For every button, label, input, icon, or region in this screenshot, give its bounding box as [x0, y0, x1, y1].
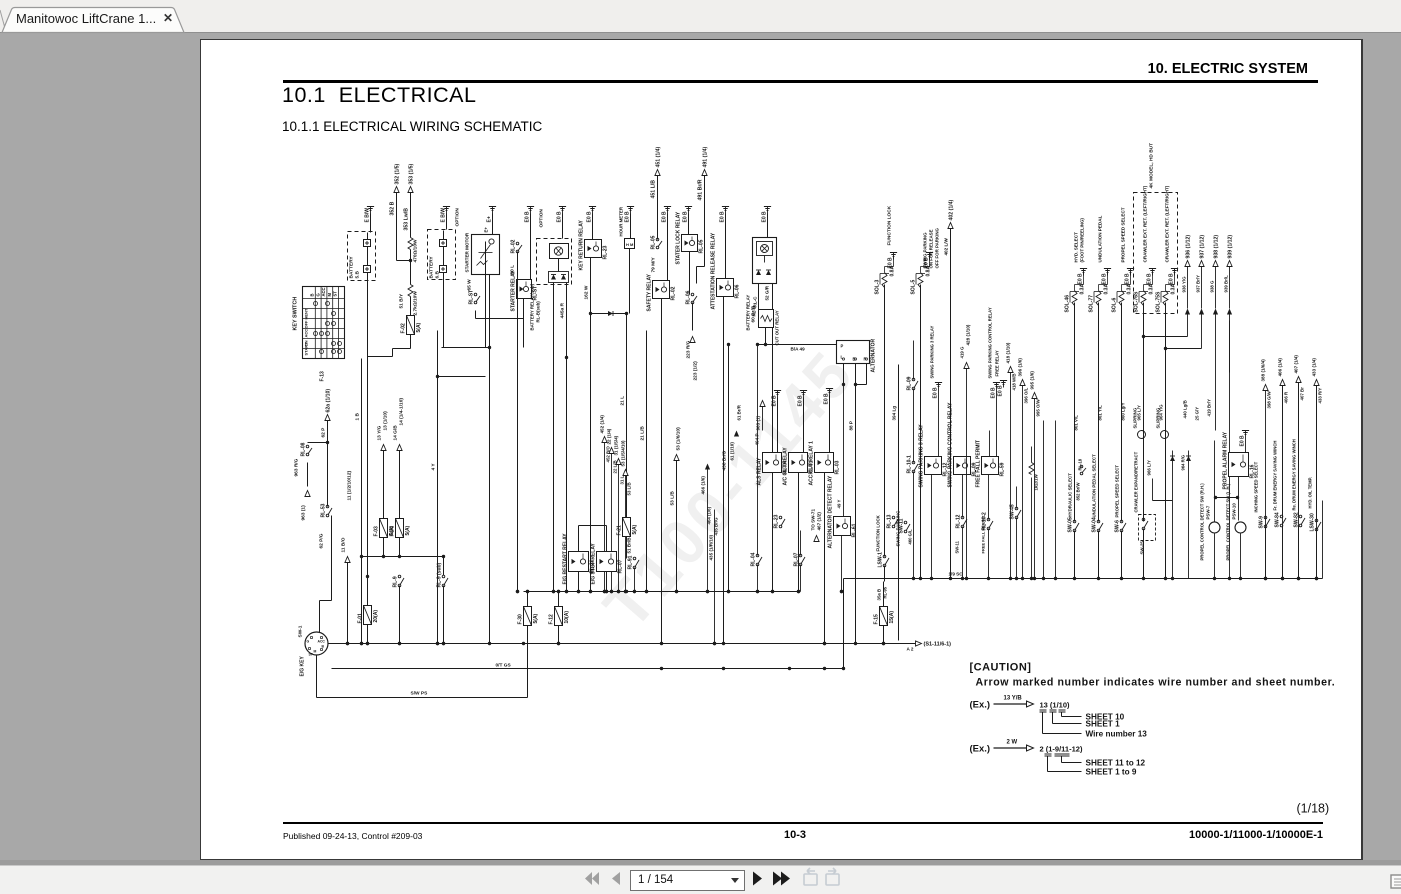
wire — [1282, 386, 1284, 579]
relay RL-01 (A/C cut relay) — [789, 453, 808, 473]
switch SW-9 (inching speed select) — [1264, 516, 1267, 519]
wire — [446, 214, 448, 230]
wire — [367, 577, 369, 606]
switch SW-6 — [1120, 520, 1123, 523]
diode D3 — [1186, 456, 1191, 461]
ground E0 B — [1171, 268, 1178, 270]
bus wire 591 — [524, 591, 801, 593]
junction — [882, 642, 885, 645]
junction — [436, 642, 439, 645]
wire — [1165, 303, 1167, 579]
ground E0 B — [774, 390, 781, 392]
switch SW-05 — [1073, 520, 1076, 523]
switch RL-18 — [1080, 465, 1083, 468]
arrow wire 936 (1/12) — [1185, 261, 1190, 267]
footer — [283, 822, 1323, 824]
arrow wire 418 (1/10) — [1008, 367, 1013, 373]
wire — [558, 592, 560, 607]
disabled forward view button — [826, 868, 839, 885]
junction — [823, 667, 826, 670]
tab Manitowoc LiftCrane — [2, 8, 184, 33]
wire — [1121, 303, 1123, 522]
slip ring SR2 — [1161, 431, 1169, 439]
wire — [884, 566, 886, 582]
switch RL-10-1 — [912, 461, 915, 464]
fuse F-15 — [880, 607, 888, 626]
wire — [1215, 321, 1217, 431]
relay RL-04 (ALS relay) — [763, 453, 782, 473]
wire — [590, 258, 592, 314]
arrow wire 452 (1/4) — [602, 437, 607, 443]
legend line SHEET 1 to 9 — [1047, 757, 1049, 772]
fuse F-02 — [407, 316, 415, 335]
wire — [920, 285, 922, 579]
relay RL-02 (safety relay) — [653, 281, 670, 299]
resistor 1k/1W — [1031, 447, 1033, 463]
wire — [843, 364, 845, 385]
wire — [492, 214, 494, 235]
wire — [688, 214, 690, 235]
switch RL-13 — [892, 516, 895, 519]
wire — [319, 601, 321, 633]
junction — [522, 642, 525, 645]
wire — [1215, 361, 1217, 431]
solenoid SOL-46 — [1072, 291, 1077, 306]
fuse F-01 — [364, 606, 372, 625]
junction — [605, 590, 608, 593]
dashed box 4K MODEL HD BUT — [1134, 193, 1178, 314]
wire — [629, 249, 631, 314]
wire — [328, 515, 332, 517]
wire — [1130, 273, 1132, 285]
disabled back view button — [804, 868, 817, 885]
solenoid SOL-77 — [1096, 291, 1101, 306]
wire — [884, 285, 886, 557]
wire — [913, 472, 915, 579]
junction — [727, 590, 730, 593]
arrow — [1185, 309, 1190, 315]
nav first page button — [585, 872, 599, 885]
slip ring SR1 — [1138, 431, 1146, 439]
ground E0 B — [800, 390, 807, 392]
wire — [725, 214, 727, 279]
junction — [589, 590, 592, 593]
wire — [1322, 501, 1324, 579]
wire — [1215, 267, 1217, 309]
legend line SHEET 1 — [1052, 713, 1054, 724]
propel control detect switch PSW-7 — [1209, 522, 1220, 533]
diode pair RL-B — [757, 262, 773, 264]
wire — [367, 233, 369, 240]
junction — [557, 590, 560, 593]
junction — [797, 590, 800, 593]
junction — [346, 642, 349, 645]
wire — [1034, 399, 1036, 579]
relay RL-06 (attestation release relay) — [717, 279, 734, 297]
wire — [931, 475, 933, 579]
document page — [200, 39, 1363, 861]
switch RL-91 — [633, 557, 636, 560]
wire — [527, 626, 529, 698]
junction — [660, 642, 663, 645]
arrow wire 491 (1/4) — [702, 170, 707, 176]
diode D1 — [591, 313, 627, 315]
arrow wire 407 (1/4) — [1296, 377, 1301, 383]
hour meter M2 — [625, 239, 635, 249]
wire — [410, 193, 412, 238]
wire — [714, 510, 716, 644]
wire — [767, 214, 769, 238]
fuse F-12 — [555, 607, 563, 626]
arrow wire 995 (1/6) — [1032, 393, 1037, 399]
junction — [840, 590, 843, 593]
wire 1 B — [361, 359, 363, 644]
ground E0 B — [935, 382, 942, 384]
junction — [722, 642, 725, 645]
wire — [723, 297, 725, 644]
wire — [1121, 531, 1123, 579]
wire — [592, 214, 594, 240]
ground E+ — [489, 206, 496, 208]
wire — [485, 242, 487, 275]
wire — [443, 231, 445, 240]
page header text — [1100, 61, 1308, 77]
status list icon bottom right — [1391, 875, 1401, 888]
heading rule — [283, 80, 1318, 83]
arrow wire 963 (1) — [307, 455, 309, 487]
wire 404 P — [772, 284, 774, 453]
wire — [966, 369, 968, 579]
propel control detect switch PSW-10 — [1235, 522, 1246, 533]
arrow wire 14 (1/4-1) — [397, 445, 402, 451]
junction — [854, 642, 857, 645]
wire — [657, 248, 659, 281]
switch RL-06 — [691, 293, 694, 296]
wire — [410, 250, 412, 285]
wire — [410, 297, 412, 316]
wire — [707, 470, 709, 592]
relay coil RL-Bsub — [550, 244, 569, 259]
solenoid SOL-6 — [1119, 291, 1124, 306]
solenoid SOL-76S — [1141, 291, 1146, 306]
wire — [630, 214, 632, 239]
wire — [757, 345, 759, 556]
bus wire 0/T GS — [332, 668, 844, 670]
battery box B1 (dashed) — [348, 232, 376, 281]
wire — [1316, 386, 1318, 521]
wire — [1216, 497, 1238, 499]
junction — [516, 590, 519, 593]
switch RL-04 — [756, 554, 759, 557]
wire — [626, 498, 628, 518]
bus wire 1/9 SC — [844, 578, 1323, 580]
relay RL-09 (swing parking control relay) — [954, 457, 971, 475]
ground E0 B — [722, 206, 729, 208]
battery cell B2a — [440, 240, 447, 247]
key switch SW-1 (E/G KEY) — [305, 632, 328, 655]
wire — [1187, 267, 1189, 309]
switch LSW-1 (function lock) — [883, 555, 886, 558]
ground E0 B — [685, 206, 692, 208]
wire — [1265, 391, 1267, 579]
wire — [883, 582, 885, 607]
ground E0 B — [664, 206, 671, 208]
arrow wire 13 (1/10) — [381, 445, 386, 451]
ground E0 B — [1242, 430, 1249, 432]
wire — [558, 259, 560, 272]
wire 438 Br/G — [728, 345, 730, 592]
wire — [1201, 267, 1203, 309]
wire — [1143, 529, 1145, 579]
relay RL-21 (E/G restart relay) — [569, 552, 589, 572]
switch RL-07 — [799, 554, 802, 557]
arrow wire 388 (1/6/4) — [1263, 385, 1268, 391]
wire — [530, 214, 532, 280]
wire — [762, 407, 764, 431]
junction — [788, 667, 791, 670]
switch SW-25 — [1142, 518, 1145, 521]
nav next page button — [753, 872, 762, 886]
wire — [399, 451, 401, 519]
wire — [1166, 348, 1202, 350]
resistor 470ohm/10W — [408, 238, 413, 250]
switch SW-45 — [1015, 507, 1018, 510]
ground E B/W — [443, 206, 450, 208]
switch RL-ST — [474, 293, 477, 296]
solenoid SOL-5 — [918, 273, 923, 288]
wire — [443, 273, 445, 557]
junction — [624, 590, 627, 593]
wire — [578, 572, 580, 592]
arrow wire 466 (1/6) — [705, 464, 710, 470]
switch LSW-30 (hyd oil temp) — [1315, 519, 1318, 522]
arrow — [1199, 309, 1204, 315]
switch RL-12 — [961, 516, 964, 519]
starter motor M1 — [472, 235, 500, 275]
relay RL-12 (swing parking 3 relay) — [925, 457, 942, 475]
relay RL-07 (E/G stop relay) — [597, 552, 617, 572]
relay RL-C (cut out relay) — [759, 310, 774, 328]
toolbar — [0, 865, 1401, 894]
wire — [1107, 273, 1109, 285]
wire — [1174, 273, 1176, 285]
switch SW-11 (swing parking) — [904, 521, 907, 524]
wire 4 Y — [437, 331, 439, 644]
wire 394 Lg — [898, 365, 900, 641]
ground E0 B — [1149, 268, 1156, 270]
wire — [657, 176, 659, 240]
arrow wire 353 (1/5) — [408, 187, 413, 193]
wire — [370, 214, 372, 233]
wire — [1316, 386, 1318, 579]
battery relay RL-B — [753, 238, 777, 284]
wire — [667, 214, 669, 281]
junction — [823, 642, 826, 645]
battery cell B2b — [440, 266, 447, 273]
resistor 2.7kohm/10W — [408, 285, 413, 297]
ground E B/W — [367, 206, 374, 208]
arrow wire 352 (1/5) — [394, 187, 399, 193]
arrow wire 53 (1/5/4/10) — [623, 470, 628, 476]
junction — [713, 642, 716, 645]
switch SW-04 — [1097, 520, 1100, 523]
arrow wire 406 (1/4) — [1280, 380, 1285, 386]
switch RL-10-2 — [987, 518, 990, 521]
wire — [626, 314, 628, 498]
wire — [1152, 273, 1154, 285]
wire — [704, 176, 706, 267]
wire — [1074, 531, 1076, 579]
wire — [1098, 531, 1100, 579]
wire — [843, 579, 845, 669]
wire — [1098, 303, 1100, 522]
ground E0 B — [993, 382, 1000, 384]
wire — [800, 531, 802, 556]
junction — [633, 590, 636, 593]
switch SW-84 (fr drum energy saving winch) — [1280, 515, 1283, 518]
arrow wire 223 (1/2) — [690, 337, 695, 343]
bus wire S/W PS — [317, 697, 528, 699]
wire — [1229, 267, 1231, 309]
wire — [1143, 303, 1145, 522]
junction — [577, 590, 580, 593]
junction — [660, 667, 663, 670]
wire 21 L/B — [646, 331, 648, 592]
battery cell B1b — [364, 266, 371, 273]
wire 60 Br/B — [758, 310, 760, 345]
wire — [777, 398, 779, 453]
wire — [689, 252, 691, 295]
relay RL-23 (key return relay) — [585, 240, 602, 258]
fuse F-04 — [396, 519, 404, 538]
relay RL-03 (ACC cut relay 1) — [815, 453, 834, 473]
switch RL-08 — [306, 445, 309, 448]
wire — [1022, 386, 1024, 579]
wire 49 Y — [843, 385, 845, 517]
arrow wire 22 (1/4) — [609, 448, 614, 454]
resistor 1kohm/1W b — [1108, 449, 1110, 461]
legend line SHEET 10 — [1061, 713, 1063, 717]
wire — [1010, 373, 1012, 579]
junction — [552, 590, 555, 593]
wire — [1043, 421, 1045, 579]
arrow — [1227, 309, 1232, 315]
arrow wire 396 (1/6) — [1020, 380, 1025, 386]
wire 162 W — [590, 314, 592, 592]
junction — [488, 642, 491, 645]
arrow wire 61 (1/10) — [734, 431, 739, 437]
wire — [893, 257, 895, 267]
wire — [1298, 383, 1300, 517]
ground E0 B — [890, 252, 897, 254]
relay coil RL-B — [757, 242, 773, 256]
previous tab edge — [0, 10, 6, 32]
wire — [1245, 438, 1247, 453]
nav last page button — [773, 872, 782, 886]
ground E0 B — [926, 252, 933, 254]
diode D2 — [1170, 456, 1175, 461]
fuse F-03 — [380, 519, 388, 538]
ground E0 B — [1104, 268, 1111, 270]
arrow wire 428 (1/10) — [964, 363, 969, 369]
ground E0 B — [559, 206, 566, 208]
wire — [1298, 383, 1300, 579]
wire — [1152, 479, 1154, 501]
junction — [675, 590, 678, 593]
switch RL-09 — [912, 378, 915, 381]
wire — [772, 473, 774, 592]
relay RL-05 (stater lock relay) — [682, 235, 698, 252]
arrow wire 963 (1) — [760, 401, 765, 407]
wire — [383, 451, 385, 519]
solenoid SOL-3 — [882, 273, 887, 288]
wire — [1055, 421, 1057, 579]
wire 445a R — [566, 361, 568, 592]
arrow wire 433 (1/4) — [1314, 380, 1319, 386]
switch RL-53 — [326, 505, 329, 508]
battery box B2 (dashed) — [428, 230, 456, 280]
ground E0 B — [589, 206, 596, 208]
arrow wire 31 (1/5/4) — [616, 459, 621, 465]
relay RL-ST (starter relay) — [517, 280, 532, 299]
switch RL-05 — [656, 238, 659, 241]
wire — [1031, 478, 1033, 579]
arrow wire 939 (1/12) — [1227, 261, 1232, 267]
fuse F-21 — [623, 518, 631, 537]
junction — [360, 642, 363, 645]
switch RL-9 (sub) — [442, 575, 445, 578]
wire — [938, 390, 940, 457]
junction — [610, 590, 613, 593]
relay RL-16 (propel alarm relay) — [1229, 453, 1249, 477]
arrow wire 937 (1/12) — [1199, 261, 1204, 267]
junction — [366, 642, 369, 645]
wire — [410, 335, 412, 349]
switch SW-82 (re drum energy saving winch) — [1299, 515, 1302, 518]
wire — [1282, 386, 1284, 517]
ground E0 B — [627, 206, 634, 208]
arrow wire 53 (1/6/10) — [674, 455, 679, 461]
ground E0 B — [1127, 268, 1134, 270]
wire — [327, 421, 329, 443]
wire — [530, 214, 532, 280]
junction — [722, 667, 725, 670]
relay RL-59 (free fall permit relay) — [982, 457, 999, 475]
ground E0 B — [826, 388, 833, 390]
nav prev page button — [612, 872, 620, 885]
solenoid SOL-75S — [1163, 291, 1168, 306]
junction — [645, 590, 648, 593]
wire — [764, 256, 766, 263]
diode pair RL-Bsub — [549, 272, 569, 283]
wire — [1144, 336, 1188, 338]
alternator G1 — [837, 341, 870, 364]
wire — [988, 475, 990, 520]
junction — [603, 590, 606, 593]
arrow wire 402 (1/4) — [948, 223, 953, 229]
junction — [526, 590, 529, 593]
wire — [1016, 487, 1018, 509]
junction — [625, 590, 628, 593]
fuse F-30 — [524, 607, 532, 626]
dashed box SW-25 — [1139, 515, 1156, 541]
wire — [442, 347, 490, 349]
battery relay (sub) RL-B(sub) dashed box — [537, 239, 572, 285]
wire — [1265, 527, 1267, 579]
wire 80 L — [517, 252, 519, 592]
arrow wire 938 (1/12) — [1213, 261, 1218, 267]
junction — [617, 590, 620, 593]
